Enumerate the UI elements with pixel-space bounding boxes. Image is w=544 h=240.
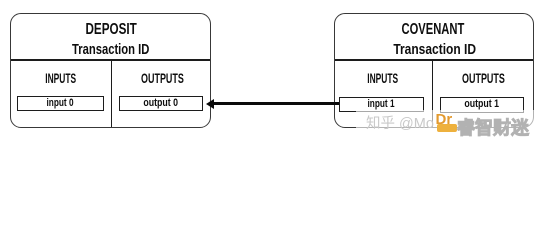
COVENANT title (334, 22, 532, 38)
COVENANT header separator (335, 59, 534, 60)
DEPOSIT title (12, 22, 211, 38)
COVENANT Transaction ID label (336, 42, 534, 57)
DEPOSIT INPUTS label (10, 71, 111, 85)
wire: covenant input 1 to deposit output 0 (211, 102, 339, 105)
watermark text 知乎 @Mo (366, 112, 434, 133)
output 1 slot (440, 97, 525, 112)
DEPOSIT OUTPUTS label (113, 71, 212, 85)
output 0 slot (119, 96, 204, 111)
DEPOSIT header separator (11, 59, 210, 60)
input 0 slot (17, 96, 104, 111)
DEPOSIT inputs/outputs divider (111, 59, 112, 126)
watermark overlay (356, 110, 544, 135)
COVENANT inputs/outputs divider (432, 59, 433, 126)
transaction box DEPOSIT (10, 13, 211, 128)
watermark logo (orange) (436, 111, 457, 129)
COVENANT INPUTS label (334, 71, 432, 85)
arrowhead pointing at output 0 (206, 99, 214, 109)
DEPOSIT Transaction ID label (11, 42, 210, 57)
transaction box COVENANT (334, 13, 534, 128)
watermark username (457, 114, 529, 140)
input 1 slot (339, 97, 424, 112)
COVENANT OUTPUTS label (433, 71, 534, 85)
